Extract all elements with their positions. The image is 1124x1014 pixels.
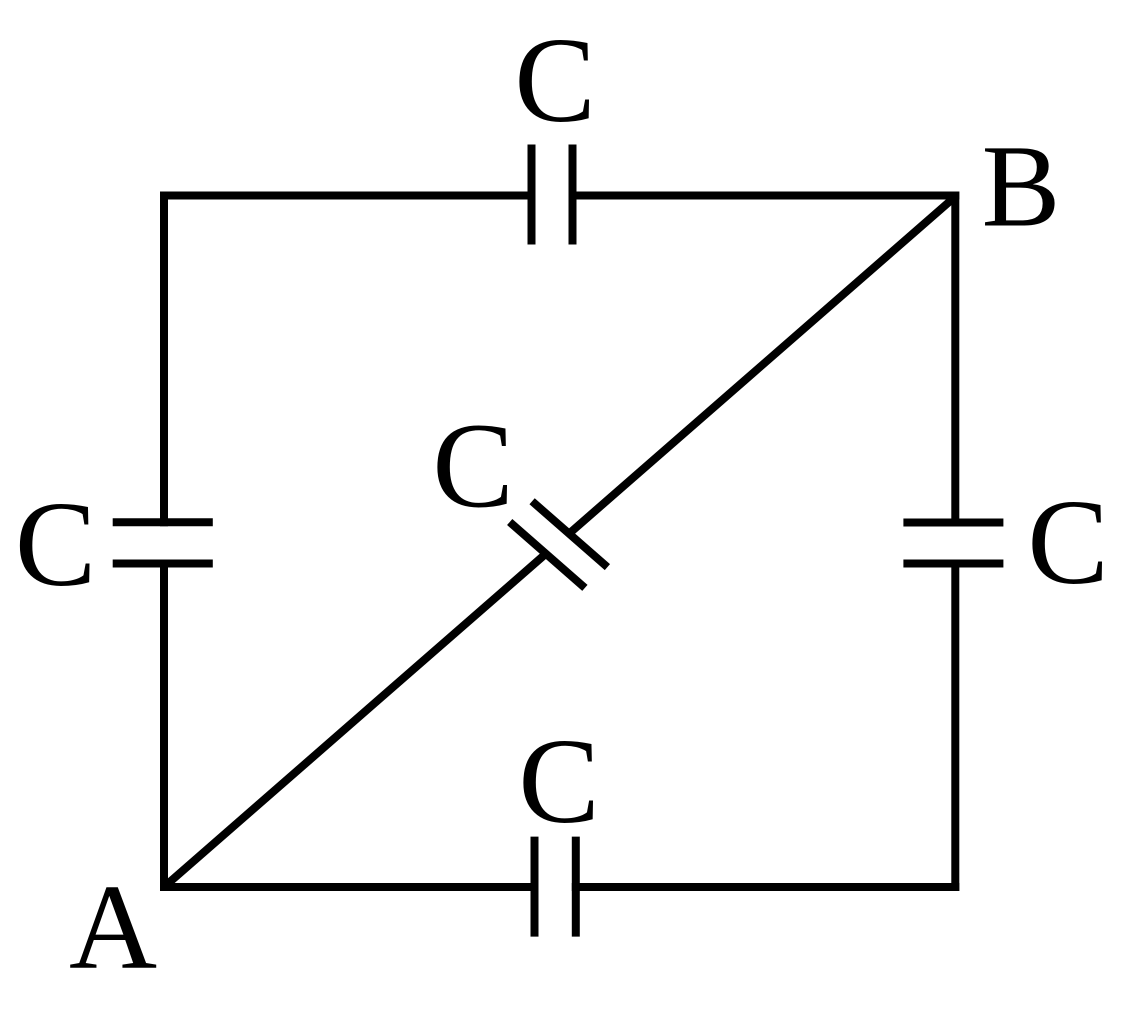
- svg-text:C: C: [514, 13, 595, 148]
- svg-text:C: C: [518, 714, 599, 849]
- svg-text:C: C: [1027, 475, 1108, 610]
- svg-text:A: A: [69, 860, 157, 995]
- svg-text:B: B: [982, 121, 1061, 252]
- svg-text:C: C: [432, 399, 513, 534]
- svg-text:C: C: [15, 477, 96, 612]
